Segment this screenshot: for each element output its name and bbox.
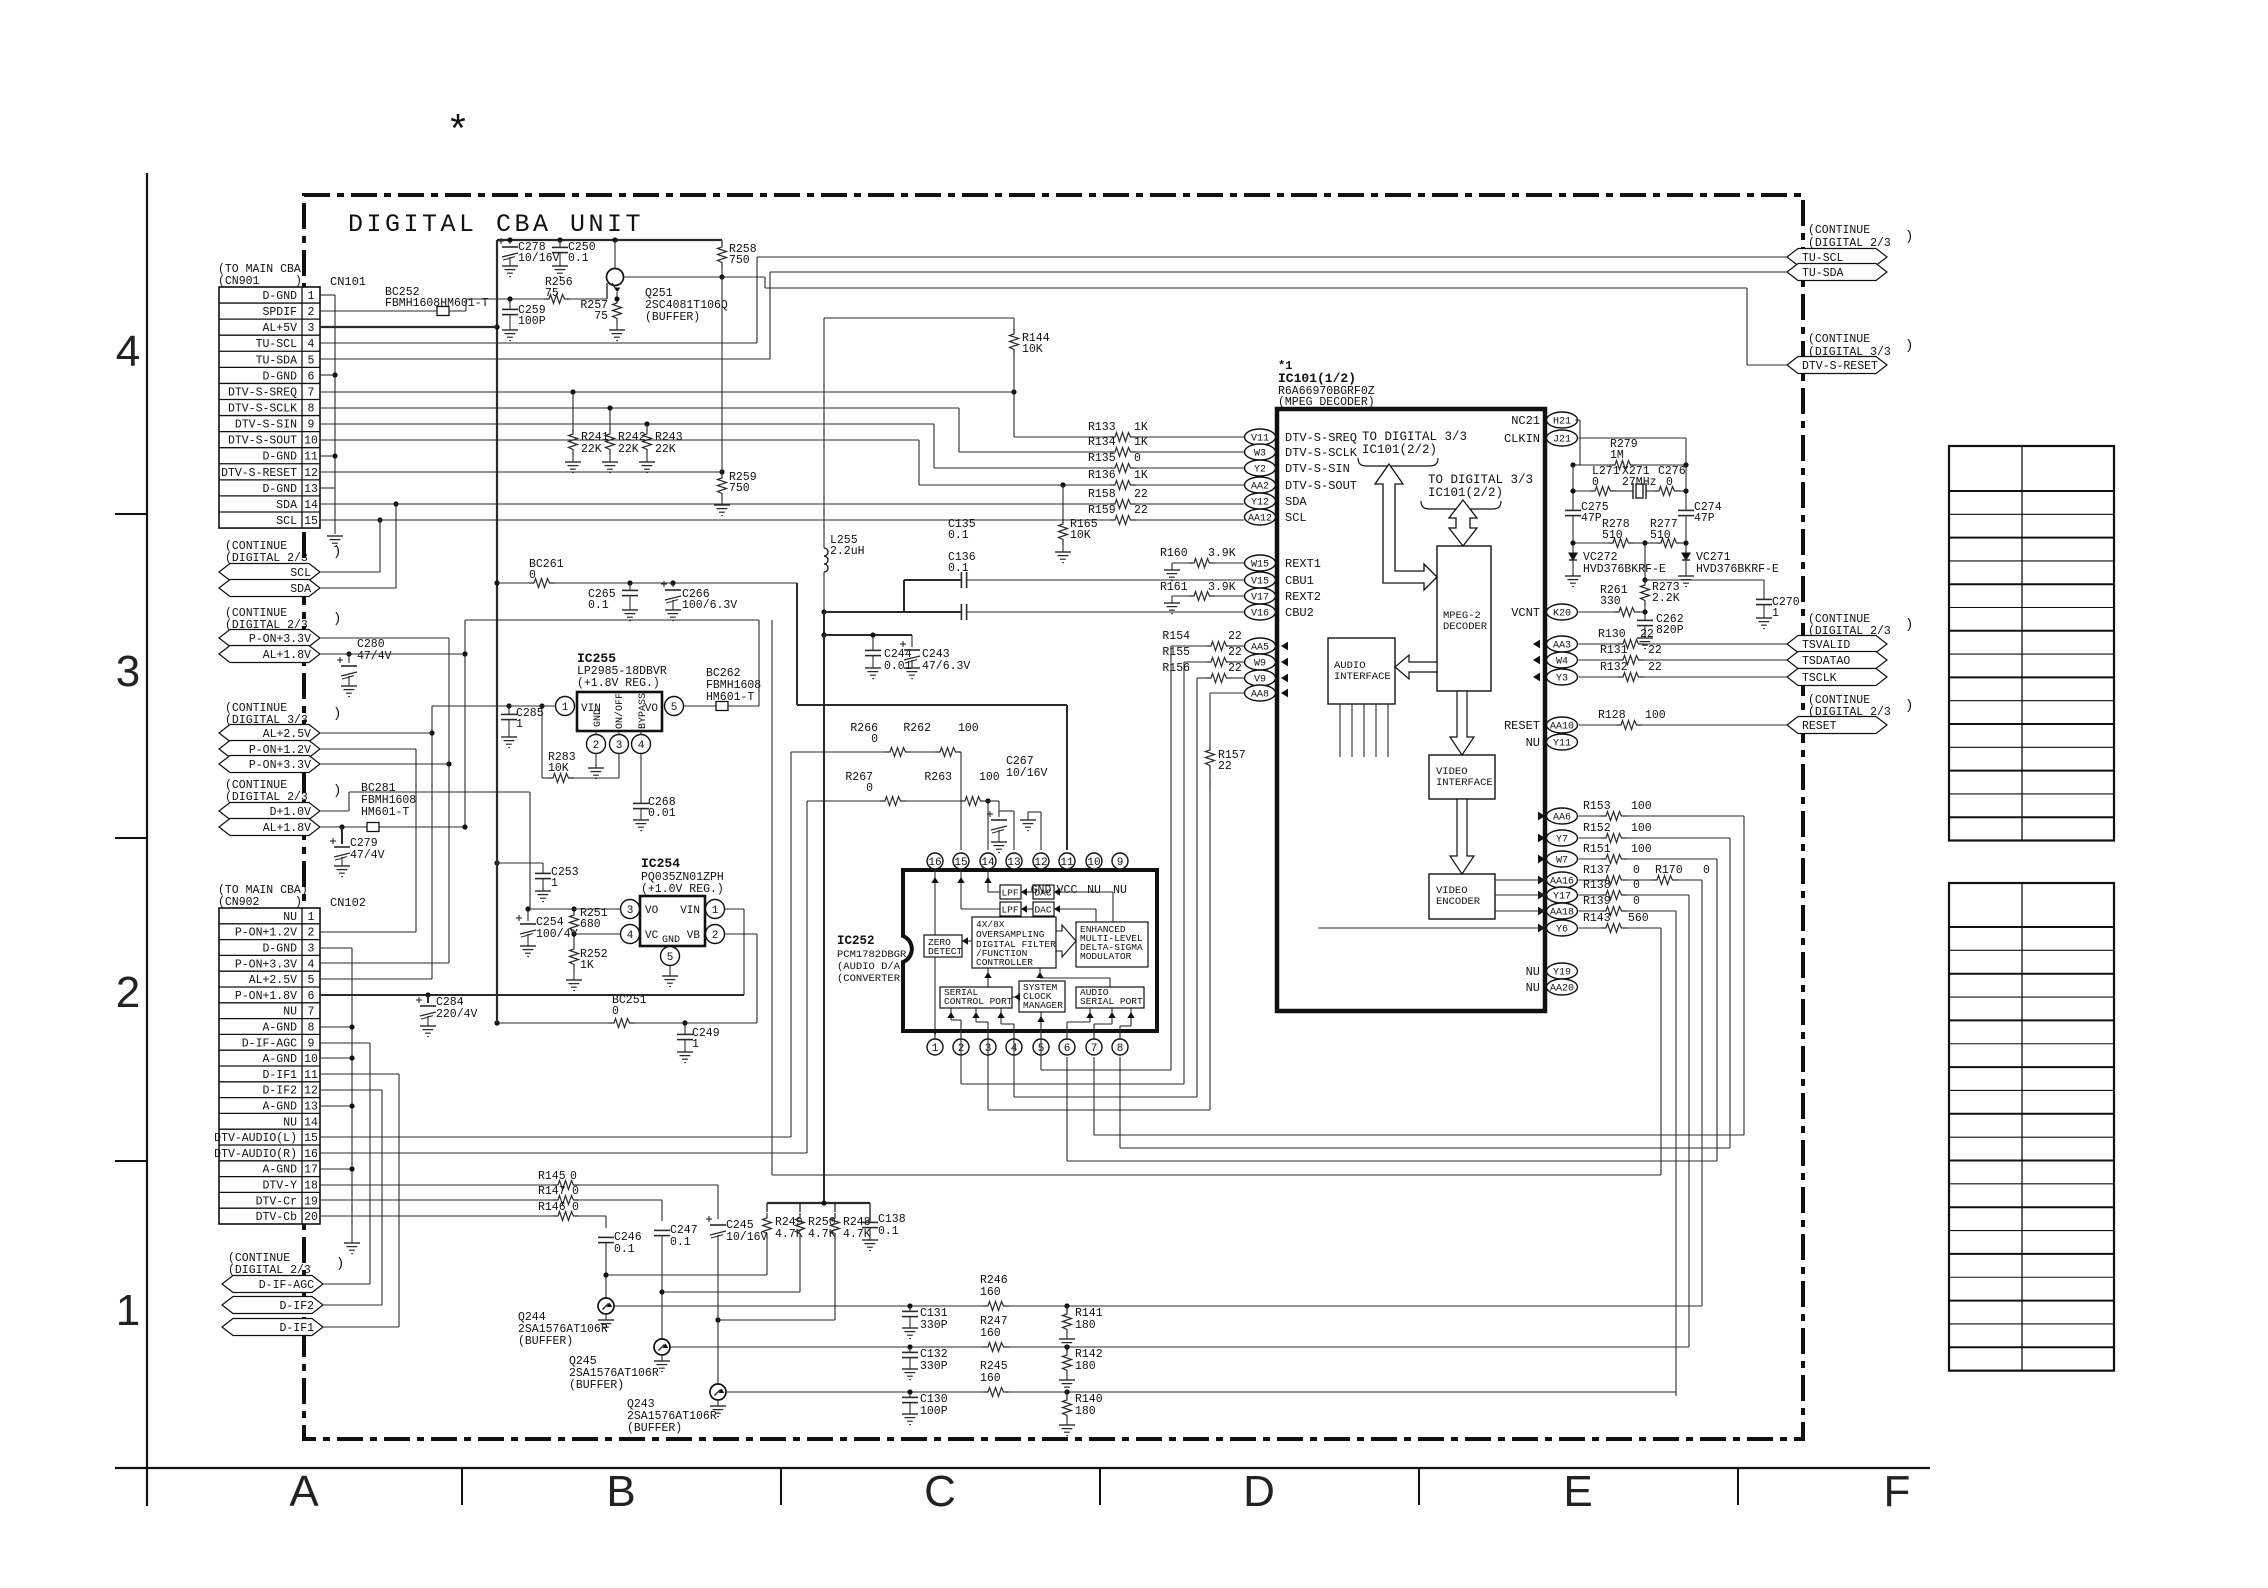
svg-text:INTERFACE: INTERFACE [1436, 777, 1493, 789]
wire CBU1 to pin [1110, 579, 1244, 581]
svg-text:SCL: SCL [276, 515, 297, 528]
svg-text:12: 12 [304, 1085, 318, 1098]
svg-text:C: C [924, 1467, 956, 1516]
flag TU-SCL [1787, 249, 1887, 266]
capacitor C253 1 [494, 860, 499, 865]
svg-text:CONTROL PORT: CONTROL PORT [944, 996, 1013, 1007]
IC101 pin W9 [1245, 654, 1276, 670]
svg-text:330P: 330P [920, 1360, 948, 1373]
frame column tick [1418, 1468, 1420, 1505]
svg-text:R153: R153 [1583, 800, 1611, 813]
IC252 pin 1 [927, 1039, 943, 1055]
svg-text:(CN901: (CN901 [218, 275, 260, 288]
svg-text:160: 160 [980, 1286, 1001, 1299]
wire CN101 pin12 DTV-S-RESET [320, 471, 722, 473]
IC255 pin2 ground [595, 754, 597, 769]
svg-text:2: 2 [116, 968, 140, 1017]
svg-text:22K: 22K [581, 443, 602, 456]
svg-text:22: 22 [1134, 488, 1148, 501]
svg-text:NU: NU [1526, 965, 1540, 979]
ZERO DETECT box [924, 935, 962, 957]
IC254 pin 3 [621, 900, 640, 919]
flag P-ON+1.2V [219, 741, 320, 758]
capacitor C285 1 [506, 703, 511, 708]
svg-text:HVD376BKRF-E: HVD376BKRF-E [1583, 563, 1666, 576]
svg-text:NU: NU [283, 1116, 297, 1129]
svg-text:Y6: Y6 [1556, 925, 1568, 936]
frame row tick 3/2 [115, 837, 147, 839]
IC101 pin V15 CBU1 [1245, 572, 1276, 588]
block arrow decoder to audio interface [1395, 655, 1437, 679]
wire serial control port to filter [987, 968, 989, 987]
svg-text:7: 7 [308, 386, 315, 399]
wire SDA line [320, 503, 1110, 505]
svg-text:10: 10 [304, 435, 318, 448]
svg-text:0.01: 0.01 [648, 807, 676, 820]
IC252 pin 5 [1033, 1039, 1049, 1055]
svg-text:R137: R137 [1583, 864, 1611, 877]
svg-text:W7: W7 [1556, 856, 1568, 867]
svg-text:IC101(2/2): IC101(2/2) [1428, 486, 1503, 500]
svg-text:RESET: RESET [1504, 719, 1540, 733]
svg-text:NU: NU [1113, 884, 1127, 897]
svg-text:100: 100 [1631, 800, 1652, 813]
svg-text:7: 7 [1091, 1043, 1098, 1055]
svg-text:22: 22 [1134, 504, 1148, 517]
svg-text:1: 1 [712, 905, 719, 917]
svg-text:12: 12 [1034, 857, 1047, 869]
svg-text:DAC: DAC [1034, 888, 1051, 899]
svg-text:Y2: Y2 [1254, 465, 1266, 476]
wire CN101 pin15 SCL flag link [320, 571, 380, 573]
svg-text:DTV-S-SCLK: DTV-S-SCLK [1285, 446, 1358, 460]
IC252 pin 8 [1112, 1039, 1128, 1055]
svg-text:D-GND: D-GND [262, 451, 297, 464]
svg-text:11: 11 [1060, 857, 1074, 869]
wire AL+1.8V flag2 [320, 826, 465, 828]
svg-text:18: 18 [304, 1180, 318, 1193]
svg-text:10: 10 [1087, 857, 1100, 869]
svg-text:(+1.0V REG.): (+1.0V REG.) [641, 883, 724, 896]
arrowhead at IC101 pin V9 [1281, 674, 1288, 683]
svg-text:180: 180 [1075, 1319, 1096, 1332]
svg-text:100: 100 [979, 771, 1000, 784]
svg-text:DTV-S-RESET: DTV-S-RESET [1802, 360, 1878, 373]
svg-text:0.1: 0.1 [568, 252, 589, 265]
svg-text:): ) [333, 783, 341, 799]
wire P-ON+1.8V net [320, 994, 744, 996]
IC255 pin 5 [665, 697, 684, 716]
VIDEO ENCODER box [1429, 874, 1495, 919]
svg-text:680: 680 [580, 918, 601, 931]
wire IC252 pin2 to R155 [960, 1037, 962, 1084]
svg-text:SCL: SCL [1285, 511, 1307, 525]
LPF box 2 [1000, 902, 1021, 916]
flag DTV-S-RESET [1787, 357, 1887, 374]
svg-text:TU-SCL: TU-SCL [256, 338, 298, 351]
IC254 pin 5 [661, 947, 680, 966]
svg-text:0: 0 [572, 1185, 579, 1198]
svg-text:DTV-S-SCLK: DTV-S-SCLK [228, 403, 297, 416]
svg-text:R160: R160 [1160, 547, 1188, 560]
svg-text:R138: R138 [1583, 879, 1611, 892]
svg-text:NU: NU [283, 1006, 297, 1019]
svg-text:INTERFACE: INTERFACE [1334, 671, 1391, 683]
svg-text:Y3: Y3 [1556, 674, 1568, 685]
svg-text:2: 2 [308, 927, 315, 940]
wire DTV-AUDIO(L) riser [320, 1136, 791, 1138]
svg-text:W4: W4 [1556, 657, 1568, 668]
svg-text:47/4V: 47/4V [357, 650, 392, 663]
svg-text:AL+2.5V: AL+2.5V [249, 974, 297, 987]
svg-text:Y19: Y19 [1553, 968, 1571, 979]
wire DTV-Cb coupling [605, 1216, 607, 1228]
svg-text:8: 8 [1117, 1043, 1124, 1055]
wire NC21 H21 [1576, 419, 1581, 421]
IC101 pin V17 REXT2 [1245, 588, 1276, 604]
arrowhead into IC101 pin Y3 [1533, 673, 1540, 682]
svg-text:5: 5 [308, 974, 315, 987]
svg-text:R170: R170 [1655, 864, 1683, 877]
IC252 pin 14 [980, 853, 996, 869]
svg-text:5: 5 [671, 702, 678, 714]
wire pin2 to serial control port [960, 1020, 962, 1037]
svg-text:(CONTINUE: (CONTINUE [1808, 333, 1870, 346]
IC252 pin12 ground loop [1040, 812, 1042, 850]
svg-text:R159: R159 [1088, 504, 1116, 517]
wire pin6 to audio serial port [1066, 1022, 1068, 1037]
flag D-IF-AGC [222, 1276, 323, 1293]
svg-text:V17: V17 [1251, 593, 1269, 604]
svg-text:R147: R147 [538, 1185, 566, 1198]
wire filter to zero detect [962, 940, 972, 942]
frame column tick [461, 1468, 463, 1505]
svg-text:10: 10 [304, 1053, 318, 1066]
svg-text:IC255: IC255 [577, 651, 616, 666]
svg-text:3.9K: 3.9K [1208, 581, 1236, 594]
svg-text:1K: 1K [1134, 469, 1148, 482]
wire Q251 collector to R258 [624, 276, 723, 278]
wire P-ON+3.3V flag2 link [320, 763, 449, 765]
wire zero detect to pin1 [934, 957, 936, 1037]
svg-text:R143: R143 [1583, 912, 1611, 925]
svg-text:): ) [333, 611, 341, 627]
svg-text:Y11: Y11 [1553, 739, 1571, 750]
svg-text:22: 22 [1640, 628, 1654, 641]
svg-text:8: 8 [308, 403, 315, 416]
wire pin3 to serial control port [987, 1022, 989, 1037]
arrowhead at IC101 pin Y17 [1538, 891, 1545, 900]
svg-text:R132: R132 [1600, 661, 1628, 674]
svg-text:LPF: LPF [1001, 905, 1018, 916]
svg-text:W3: W3 [1254, 449, 1266, 460]
svg-text:AL+2.5V: AL+2.5V [263, 728, 311, 741]
svg-text:(BUFFER): (BUFFER) [627, 1422, 682, 1435]
IC101 pin Y12 SDA [1245, 493, 1276, 509]
VIDEO INTERFACE box [1429, 755, 1495, 799]
svg-text:8: 8 [308, 1022, 315, 1035]
svg-text:Y7: Y7 [1556, 835, 1568, 846]
svg-text:TO DIGITAL 3/3: TO DIGITAL 3/3 [1362, 430, 1467, 444]
IC101 pin Y6 [1547, 920, 1578, 936]
flag D+1.0V [219, 803, 320, 820]
IC101 pin Y3 [1547, 669, 1578, 685]
svg-text:TU-SDA: TU-SDA [1802, 267, 1844, 280]
IC101 pin W7 [1547, 851, 1578, 867]
svg-text:): ) [336, 1256, 344, 1272]
wire DTV-S-SCLK [320, 407, 959, 409]
IC101 pin W15 REXT1 [1245, 555, 1276, 571]
svg-text:CLKIN: CLKIN [1504, 432, 1540, 446]
wire D-IF1 net [320, 1073, 399, 1075]
svg-text:P-ON+3.3V: P-ON+3.3V [235, 958, 297, 971]
svg-text:820P: 820P [1656, 624, 1684, 637]
svg-text:DTV-S-SIN: DTV-S-SIN [235, 419, 297, 432]
delta-sigma modulator box [1076, 922, 1148, 967]
wire IC255 output loop [758, 620, 760, 706]
IC101 pin J21 CLKIN [1547, 430, 1578, 446]
svg-text:560: 560 [1628, 912, 1649, 925]
svg-text:): ) [1905, 338, 1913, 354]
wire AL+2.5V flag link [320, 732, 432, 734]
svg-text:D-GND: D-GND [262, 370, 297, 383]
svg-text:DTV-Cr: DTV-Cr [256, 1195, 297, 1208]
flag TSCLK [1787, 669, 1887, 686]
wire SCL line [320, 519, 1110, 521]
svg-text:AA20: AA20 [1550, 984, 1574, 995]
arrowhead at IC101 pin AA5 [1281, 642, 1288, 651]
svg-text:R158: R158 [1088, 488, 1116, 501]
svg-text:13: 13 [304, 483, 318, 496]
wire xtal mid node [1644, 543, 1646, 580]
digital filter box [972, 917, 1056, 968]
svg-text:B: B [606, 1467, 635, 1516]
svg-text:0.1: 0.1 [614, 1243, 635, 1256]
svg-text:100: 100 [1631, 822, 1652, 835]
svg-text:0.1: 0.1 [588, 599, 609, 612]
svg-text:NU: NU [283, 911, 297, 924]
svg-text:PCM1782DBGR: PCM1782DBGR [837, 949, 907, 961]
svg-text:DTV-AUDIO(R): DTV-AUDIO(R) [214, 1148, 297, 1161]
svg-text:Y17: Y17 [1553, 892, 1571, 903]
wire L255 to C244 [823, 612, 825, 635]
svg-text:A-GND: A-GND [262, 1053, 297, 1066]
IC252 pin 4 [1006, 1039, 1022, 1055]
svg-text:TO DIGITAL 3/3: TO DIGITAL 3/3 [1428, 473, 1533, 487]
wire DAC2 to LPF2 [1021, 908, 1033, 910]
svg-text:1: 1 [932, 1043, 939, 1055]
svg-text:20: 20 [304, 1211, 318, 1224]
wire Q243 output line [726, 1391, 983, 1393]
wire pin16 to zero detect [934, 870, 936, 935]
svg-text:DTV-Cb: DTV-Cb [256, 1211, 298, 1224]
svg-text:15: 15 [304, 515, 318, 528]
wire DTV-S-SOUT [320, 439, 919, 441]
svg-text:): ) [1905, 617, 1913, 633]
CN101 ground trunk [334, 295, 336, 488]
arrowhead at IC101 pin AA8 [1281, 689, 1288, 698]
svg-text:180: 180 [1075, 1360, 1096, 1373]
svg-text:3: 3 [616, 740, 623, 752]
wire IC252 pin5 to R154 [1040, 1037, 1042, 1070]
board dash-dot border [304, 195, 1803, 1439]
svg-text:ENCODER: ENCODER [1436, 896, 1481, 908]
svg-text:10K: 10K [1070, 529, 1091, 542]
svg-text:CN101: CN101 [330, 275, 366, 289]
IC254 pin 2 [706, 925, 725, 944]
svg-text:180: 180 [1075, 1405, 1096, 1418]
svg-text:NU: NU [1087, 884, 1101, 897]
IC254 pin 1 [706, 900, 725, 919]
wire D-IF-AGC net [320, 1042, 370, 1044]
DAC box 1 [1033, 885, 1054, 899]
arrowhead at IC101 pin AA18 [1538, 907, 1545, 916]
IC252 pin 15 [953, 853, 969, 869]
svg-text:15: 15 [954, 857, 967, 869]
svg-text:1K: 1K [580, 959, 594, 972]
svg-text:K20: K20 [1553, 609, 1571, 620]
svg-text:4: 4 [308, 958, 315, 971]
flag P-ON+3.3V [219, 630, 320, 647]
svg-text:0: 0 [1633, 879, 1640, 892]
svg-text:V11: V11 [1251, 434, 1269, 445]
svg-text:R161: R161 [1160, 581, 1188, 594]
IC101 pin Y17 [1547, 887, 1578, 903]
svg-text:DAC: DAC [1034, 905, 1051, 916]
svg-text:14: 14 [304, 499, 318, 512]
svg-text:VO: VO [645, 905, 659, 917]
svg-text:D-GND: D-GND [262, 290, 297, 303]
svg-text:AA8: AA8 [1251, 690, 1269, 701]
capacitor C249 1 [684, 1023, 686, 1034]
svg-text:R145: R145 [538, 1170, 566, 1183]
svg-text:GND: GND [662, 935, 680, 946]
svg-text:P-ON+1.8V: P-ON+1.8V [235, 990, 297, 1003]
svg-text:160: 160 [980, 1372, 1001, 1385]
svg-text:100/4V: 100/4V [536, 928, 578, 941]
svg-text:AA18: AA18 [1550, 908, 1574, 919]
svg-text:16: 16 [304, 1148, 318, 1161]
svg-text:6: 6 [308, 370, 315, 383]
wire VCC rail to IC252 [796, 583, 798, 705]
wire DTV-Cr coupling [661, 1200, 663, 1221]
svg-text:TSVALID: TSVALID [1802, 639, 1850, 652]
IC252 pin 3 [980, 1039, 996, 1055]
svg-text:DIGITAL CBA UNIT: DIGITAL CBA UNIT [348, 210, 644, 239]
svg-text:SDA: SDA [1285, 495, 1307, 509]
svg-text:13: 13 [1007, 857, 1020, 869]
svg-text:R131: R131 [1600, 644, 1628, 657]
svg-text:R156: R156 [1162, 662, 1190, 675]
svg-text:DTV-Y: DTV-Y [262, 1180, 297, 1193]
IC101 pin Y19 NU [1547, 963, 1578, 979]
svg-text:5: 5 [667, 952, 674, 964]
svg-text:W15: W15 [1251, 560, 1269, 571]
wire P-ON+1.2V net [320, 931, 416, 933]
frame column tick [1737, 1468, 1739, 1505]
svg-text:R133: R133 [1088, 421, 1116, 434]
svg-text:2: 2 [712, 930, 719, 942]
svg-text:CN102: CN102 [330, 896, 366, 910]
svg-text:VB: VB [687, 930, 701, 942]
svg-text:): ) [1905, 229, 1913, 245]
svg-text:D-GND: D-GND [262, 943, 297, 956]
arrowhead at IC101 pin AA6 [1538, 812, 1545, 821]
svg-text:IC101(1/2): IC101(1/2) [1278, 371, 1356, 386]
IC101 pin AA6 [1547, 808, 1578, 824]
wire DTV-AUDIO(R) riser [320, 1152, 807, 1154]
wire modulator to DAC2 [1054, 908, 1096, 910]
svg-text:E: E [1563, 1467, 1592, 1516]
svg-text:REXT1: REXT1 [1285, 557, 1321, 571]
svg-text:7: 7 [308, 1006, 315, 1019]
svg-text:AL+1.8V: AL+1.8V [263, 649, 311, 662]
IC252 pin 12 [1033, 853, 1049, 869]
svg-text:0.1: 0.1 [948, 529, 969, 542]
wire DAC1 to LPF1 [1021, 891, 1033, 893]
svg-text:22: 22 [1228, 630, 1242, 643]
svg-text:HM601-T: HM601-T [706, 691, 754, 704]
IC252 body box [903, 870, 1157, 1031]
svg-text:10/16V: 10/16V [1006, 767, 1048, 780]
svg-text:4.7K: 4.7K [808, 1228, 836, 1241]
blank revision table upper [1949, 446, 2114, 841]
block arrow video interface to encoder [1450, 799, 1474, 874]
svg-text:R262: R262 [903, 722, 931, 735]
svg-text:A-GND: A-GND [262, 1022, 297, 1035]
svg-text:HVD376BKRF-E: HVD376BKRF-E [1696, 563, 1779, 576]
svg-text:1K: 1K [1134, 421, 1148, 434]
block arrow to digital (big L-shape) [1375, 464, 1437, 590]
svg-text:DTV-AUDIO(L): DTV-AUDIO(L) [214, 1132, 297, 1145]
svg-text:R155: R155 [1162, 646, 1190, 659]
frame column tick [1099, 1468, 1101, 1505]
blank revision table lower [1949, 883, 2114, 1371]
svg-text:Y12: Y12 [1251, 498, 1269, 509]
svg-text:0: 0 [1134, 452, 1141, 465]
wire IC254 VB [725, 933, 758, 935]
wire pin8 to audio serial port [1119, 1026, 1121, 1037]
svg-text:9: 9 [1117, 857, 1124, 869]
flag SCL [219, 564, 320, 581]
svg-text:47/4V: 47/4V [350, 849, 385, 862]
flag AL+1.8V (2) [219, 819, 320, 836]
svg-text:2.2K: 2.2K [1652, 592, 1680, 605]
svg-text:0: 0 [572, 1201, 579, 1214]
svg-text:100P: 100P [518, 315, 546, 328]
IC252 pin 2 [953, 1039, 969, 1055]
power bus to R249 group [767, 1202, 870, 1204]
svg-text:DETECT: DETECT [928, 946, 963, 957]
svg-text:1: 1 [516, 718, 523, 731]
svg-text:22: 22 [1218, 760, 1232, 773]
svg-text:100: 100 [1631, 843, 1652, 856]
IC255 pin 1 [556, 697, 575, 716]
svg-text:VO: VO [645, 703, 659, 715]
svg-text:13: 13 [304, 1101, 318, 1114]
flag P-ON+3.3V (2) [219, 756, 320, 773]
svg-text:R130: R130 [1598, 628, 1626, 641]
svg-text:R136: R136 [1088, 469, 1116, 482]
IC101 pin W3 DTV-S-SCLK [1245, 444, 1276, 460]
svg-text:R139: R139 [1583, 895, 1611, 908]
wire CN101 pin5 TU-SDA [320, 358, 770, 360]
wire IC252 pin4 to R156 [1013, 1037, 1015, 1097]
flag D-IF1 [222, 1319, 323, 1336]
svg-text:22: 22 [1648, 661, 1662, 674]
svg-text:22K: 22K [655, 443, 676, 456]
svg-text:V15: V15 [1251, 577, 1269, 588]
